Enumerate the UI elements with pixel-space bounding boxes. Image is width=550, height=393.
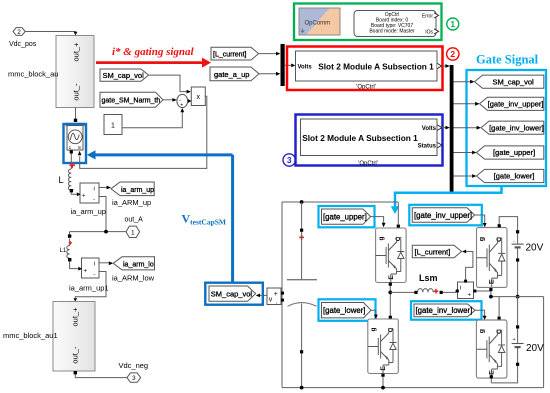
wire gate_inv_lower to IGBT4 gate (475, 310, 486, 320)
circled 2 red (447, 48, 459, 60)
svg-text:i: i (460, 286, 461, 292)
wire Volts to demux (442, 126, 450, 130)
svg-text:out_-: out_- (72, 83, 81, 101)
svg-text:[L_current]: [L_current] (213, 51, 247, 58)
port Vdc_pos (2) (9, 28, 37, 48)
svg-text:OpComm: OpComm (305, 21, 331, 27)
svg-text:SM_cap_vol: SM_cap_vol (211, 290, 253, 299)
svg-text:out_+: out_+ (72, 42, 81, 62)
svg-text:[L_current]: [L_current] (415, 247, 451, 256)
capacitor SM (polarized) (287, 280, 317, 307)
svg-text:Board mode: Master: Board mode: Master (369, 28, 415, 34)
block OpCtrl board (354, 11, 439, 37)
svg-text:+: + (274, 291, 278, 298)
goto tag [gate_upper] (477, 146, 544, 159)
wire out_- to Vdc_neg (74, 371, 127, 378)
left rail (281, 202, 283, 388)
wire node to L1 (68, 232, 71, 238)
wire gate_a_up to mux (259, 72, 280, 76)
sum junction (177, 94, 188, 108)
block Slot 2 Module A Subsection 1 (model) (301, 119, 442, 156)
svg-text:+: + (82, 194, 86, 200)
label ia_arm_up block (71, 207, 106, 216)
from tag [gate_inv_upper] with cyan box (409, 205, 482, 226)
label OpCtrl (red box) (356, 85, 376, 91)
capacitor branch upper lead (299, 202, 304, 279)
svg-text:i: i (94, 262, 95, 268)
svg-text:[gate_inv_lower]: [gate_inv_lower] (416, 306, 473, 315)
svg-text:gate_a_up: gate_a_up (214, 70, 249, 79)
node top of capacitor (300, 200, 304, 204)
wire v to goto SM_cap_vol (256, 294, 267, 298)
goto tag SM_cap_vol (measured) (209, 286, 256, 301)
svg-text:IOs: IOs (425, 30, 433, 36)
controlled voltage source (arm source au) (66, 123, 84, 155)
svg-text:Slot 2 Module A Subsection 1: Slot 2 Module A Subsection 1 (302, 133, 418, 143)
wire i to goto tag (99, 186, 111, 190)
cyan annotation line from gate signal box (391, 186, 502, 214)
label OpCtrl (navy box) (358, 161, 378, 167)
wire L1 to ia_arm_up1 (70, 262, 82, 269)
right rail (543, 297, 545, 388)
wire demux to goto [gate_inv_upper] (454, 102, 480, 106)
wire IGBT3 emitter to bottom rail (381, 374, 385, 390)
wire gate_SM_Narm_th to sum (163, 98, 177, 102)
svg-text:SM_cap_vol: SM_cap_vol (103, 71, 145, 80)
svg-text:+: + (513, 337, 516, 343)
demux bar (450, 65, 454, 192)
wire constant to sum (122, 108, 184, 128)
from tag [gate_lower] with cyan box (319, 299, 376, 321)
group box red (2) (287, 47, 443, 91)
svg-text:2: 2 (17, 29, 21, 36)
label 20V lower (526, 343, 544, 354)
svg-text:[gate_inv_upper]: [gate_inv_upper] (414, 211, 472, 220)
capacitor lower lead (300, 304, 304, 390)
wire product feedback to source (80, 96, 207, 168)
annotation red arrow (96, 58, 211, 68)
voltage measurement v (267, 288, 284, 306)
svg-text:out_A: out_A (125, 217, 144, 224)
wire i to IGBT2 emitter (476, 288, 492, 291)
top rail (282, 201, 398, 203)
label ia_ARM_up (112, 198, 151, 207)
goto tag L_current (measured current) (412, 245, 461, 257)
svg-text:3: 3 (287, 155, 292, 165)
svg-text:20V: 20V (526, 243, 544, 254)
group box navy (3) (296, 115, 443, 166)
svg-text:[gate_inv_upper]: [gate_inv_upper] (488, 100, 544, 109)
port out_A (1) (125, 217, 144, 238)
battery 20V lower (512, 297, 524, 366)
svg-text:SM_cap_vol: SM_cap_vol (492, 77, 534, 86)
circled 1 green (447, 18, 459, 30)
block mmc_block_au1 (53, 302, 95, 372)
goto tag [gate_inv_upper] (480, 97, 544, 110)
svg-text:Vdc_neg: Vdc_neg (119, 361, 149, 370)
block mmc_block_au (56, 36, 94, 108)
label ia_ARM_low (112, 274, 155, 283)
svg-text:ia_ARM_up: ia_ARM_up (112, 198, 151, 207)
mux bar (281, 44, 285, 86)
svg-text:Lsm: Lsm (419, 273, 438, 283)
label ia_arm_up1 (69, 284, 109, 293)
svg-text:Gate Signal: Gate Signal (476, 53, 539, 67)
from tag SM_cap_vol (100, 69, 149, 81)
svg-text:ia_arm_lo: ia_arm_lo (123, 262, 154, 269)
svg-text:+: + (468, 293, 472, 299)
circled 3 navy (283, 154, 295, 166)
wire red block to demux (442, 64, 450, 68)
constant 1 (104, 115, 122, 135)
midpoint junction to IGBT4 collector and batteries (489, 291, 544, 320)
svg-text:2: 2 (450, 49, 455, 59)
wire IGBT1 emitter down to IGBT3 collector (388, 283, 392, 319)
goto ia_arm_lo (113, 257, 154, 270)
label VtestCapSM (182, 212, 227, 227)
svg-text:mmc_block_au1: mmc_block_au1 (3, 331, 58, 340)
svg-text:.: . (276, 299, 278, 306)
svg-text:out_-: out_- (71, 346, 80, 364)
wire out_- to source (74, 108, 77, 123)
block OpComm (299, 8, 340, 35)
svg-text:Volts: Volts (422, 126, 437, 132)
current measurement ia_arm_up (77, 183, 99, 204)
svg-text:[gate_upper]: [gate_upper] (323, 213, 367, 222)
wire i output to L_current tag (462, 250, 473, 280)
bottom rail (282, 387, 544, 389)
wire sum to product (188, 99, 192, 103)
label Gate Signal (476, 53, 539, 67)
IGBT1 (upper) (376, 228, 407, 283)
svg-text:Vdc_pos: Vdc_pos (9, 41, 37, 48)
svg-text:[gate_upper]: [gate_upper] (493, 148, 535, 157)
wire battery1 to midpoint (516, 262, 520, 299)
current measurement i (Lsm) (456, 280, 477, 299)
svg-text:Status: Status (418, 143, 437, 149)
svg-text:+: + (180, 103, 183, 109)
svg-text:1: 1 (111, 122, 115, 129)
svg-text:mmc_block_au: mmc_block_au (8, 70, 58, 79)
wire top rail to IGBT1 collector (397, 202, 400, 228)
goto tag [gate_lower] (477, 169, 544, 182)
wire gate_lower to IGBT3 gate (371, 310, 378, 319)
svg-text:3: 3 (132, 375, 136, 382)
wire mux to red block Volts (285, 64, 296, 68)
port Vdc_neg (3) (119, 361, 149, 382)
svg-text:ia_arm_up1: ia_arm_up1 (69, 284, 109, 293)
from tag [gate_inv_lower] with cyan box (411, 301, 482, 320)
svg-text:ia_arm_up: ia_arm_up (121, 187, 154, 194)
wire to goto ia_arm_lo (99, 261, 113, 265)
wire gate_inv_upper to IGBT2 gate (475, 215, 487, 227)
svg-text:x: x (196, 94, 200, 101)
label mmc_block_au (8, 70, 58, 79)
group box green (1) (294, 4, 442, 41)
inductor L1 (60, 239, 73, 262)
svg-text:L1: L1 (60, 248, 67, 254)
svg-text:'OpCtrl': 'OpCtrl' (356, 85, 376, 91)
block Slot 2 Module A Subsection 1 (command) (296, 51, 442, 81)
wire Vdc_pos to mmc_block_au (25, 32, 77, 36)
wire gate_upper to IGBT1 gate (371, 217, 386, 228)
svg-text:Volts: Volts (298, 64, 313, 70)
svg-text:v: v (269, 297, 273, 304)
svg-text:[gate_lower]: [gate_lower] (323, 306, 365, 315)
IGBT3 (lower) (368, 319, 399, 374)
wire SM_cap_vol to product (149, 75, 191, 93)
svg-text:-: - (93, 198, 95, 204)
highlight box blue around SM_cap_vol (205, 283, 262, 305)
svg-text:L: L (59, 175, 64, 185)
from tag gate_a_up (210, 67, 259, 81)
highlight box blue around source (64, 124, 87, 163)
wire L_current to mux (259, 52, 281, 56)
svg-text:-: - (94, 273, 96, 279)
annotation text i* & gating signal (112, 46, 195, 58)
svg-text:ia_arm_up: ia_arm_up (71, 207, 106, 216)
label mmc_block_au1 (3, 331, 58, 340)
svg-text:[gate_inv_lower]: [gate_inv_lower] (489, 123, 544, 132)
wire demux to goto SM_cap_vol (454, 80, 475, 84)
wire demux to goto [gate_upper] (454, 151, 477, 155)
from tag L_current (211, 47, 259, 60)
goto tag [gate_inv_lower] (481, 121, 544, 134)
current measurement ia_arm_up1 (78, 258, 99, 279)
svg-text:[gate_lower]: [gate_lower] (494, 172, 535, 181)
svg-text:'OpCtrl': 'OpCtrl' (358, 161, 378, 167)
wire ia_arm_up minus to node rail (70, 197, 127, 234)
wire source to L with red plus (69, 154, 75, 170)
svg-text:Error: Error (422, 14, 433, 20)
wire demux to goto [gate_lower] (454, 174, 477, 178)
label 20V upper (526, 243, 544, 254)
wire ia_arm_up1 to mmc_block_au1 (73, 272, 106, 302)
svg-text:20V: 20V (526, 343, 544, 354)
wire IGBT2 collector to battery1 (498, 217, 518, 231)
goto tag SM_cap_vol (475, 75, 544, 88)
product x (191, 87, 205, 106)
inductor L (59, 169, 74, 192)
svg-text:ia_ARM_low: ia_ARM_low (112, 274, 155, 283)
svg-text:1: 1 (450, 19, 455, 29)
svg-text:i: i (94, 187, 95, 193)
IGBT4 (inv lower) (476, 320, 507, 378)
goto ia_arm_up (111, 182, 154, 196)
Lsm rail and inductor (390, 289, 457, 294)
group box cyan gate signal (467, 70, 547, 186)
svg-text:out_+: out_+ (71, 307, 80, 327)
svg-text:i* & gating signal: i* & gating signal (112, 46, 195, 58)
wire demux to goto [gate_inv_lower] (454, 126, 482, 130)
svg-text:1: 1 (131, 229, 135, 236)
annotation blue arrow to source (87, 150, 233, 282)
wire L to ia_arm_up (71, 192, 80, 194)
wire battery2 to IGBT4 emitter (490, 366, 518, 383)
from tag gate_SM_Narm_th (100, 92, 163, 107)
svg-text:m: m (78, 145, 82, 150)
svg-text:gate_SM_Narm_th: gate_SM_Narm_th (102, 98, 161, 105)
svg-text:Slot 2 Module A Subsection 1: Slot 2 Module A Subsection 1 (318, 61, 434, 71)
from tag [gate_upper] with cyan box (319, 206, 375, 227)
label Lsm (419, 273, 438, 283)
battery 20V upper (512, 230, 524, 261)
svg-text:+: + (84, 269, 88, 275)
IGBT2 (inv upper) (477, 228, 508, 288)
